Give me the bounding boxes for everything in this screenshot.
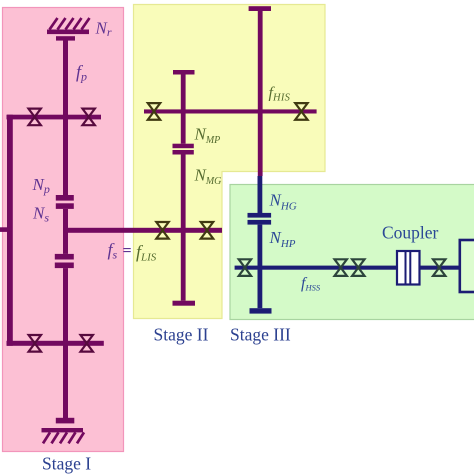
- ring gear wall hatching (top): [50, 18, 90, 30]
- wire: f_HSS shaft (horizontal): [235, 266, 460, 270]
- bearing (bowtie) upper-right: [82, 109, 94, 126]
- wire: sun shaft lower segment: [63, 268, 68, 418]
- gear mesh capacitor N_p/N_s, top plate: [56, 195, 74, 201]
- bearing (bowtie) f_HIS right: [295, 103, 307, 120]
- gear mesh capacitor 2, bottom plate: [55, 263, 74, 269]
- wire: Stage II left shaft lower segment: [181, 155, 186, 301]
- wire: HSS shaft upper navy segment: [258, 176, 263, 213]
- svg-text:=: =: [123, 243, 132, 260]
- generator box: [460, 240, 474, 292]
- wire: carrier upper bar: [7, 115, 102, 120]
- shaft bottom T-bar: [56, 418, 75, 424]
- svg-text:Coupler: Coupler: [382, 222, 439, 242]
- wire: Stage II left shaft upper segment: [181, 74, 186, 144]
- bearing (bowtie) lower-left: [29, 335, 41, 352]
- bearing (bowtie) f_HSS middle 1: [335, 259, 347, 276]
- Stage II background region (yellow, L-shaped): [134, 5, 326, 319]
- gear mesh capacitor 2, top plate: [55, 254, 74, 260]
- wire: Stage II right shaft (purple segment): [258, 11, 263, 176]
- Stage III background region (green): [230, 185, 474, 320]
- bearing (bowtie) f_s wire left: [156, 222, 168, 239]
- svg-text:Stage II: Stage II: [154, 325, 209, 345]
- ring gear wall bar: [47, 30, 89, 35]
- wire: carrier left arm: [7, 115, 13, 346]
- wire: HSS shaft lower segment: [258, 225, 263, 309]
- gear mesh capacitor N_HG/N_HP, top plate: [248, 213, 272, 218]
- wire: central shaft upper segment: [63, 40, 68, 195]
- ring shaft T-bar: [56, 36, 75, 40]
- Stage II right shaft top T-bar: [249, 6, 271, 11]
- coupler body: [397, 251, 420, 285]
- bottom wall bar: [42, 428, 84, 432]
- wire: sun output shaft f_s (horizontal, into Stage II): [63, 228, 222, 233]
- bearing (bowtie) f_HIS left: [148, 103, 160, 120]
- wire: sun shaft mid segment: [63, 209, 68, 254]
- svg-text:Stage I: Stage I: [42, 454, 91, 474]
- gear mesh capacitor N_p/N_s, bottom plate: [56, 203, 74, 209]
- bearing (bowtie) f_HSS middle 2: [352, 259, 364, 276]
- coupler inner plate 1: [405, 251, 407, 285]
- Stage I background region (pink): [3, 8, 124, 452]
- gear mesh capacitor N_MP/N_MG, top plate: [173, 144, 194, 149]
- wire: f_HIS shaft (horizontal): [144, 109, 317, 113]
- HSS shaft bottom T-bar: [250, 308, 272, 313]
- wire: carrier lower bar: [7, 341, 104, 346]
- bearing (bowtie) f_HSS left: [239, 259, 251, 276]
- bottom wall hatching: [43, 432, 84, 443]
- gear mesh capacitor N_HG/N_HP, bottom plate: [248, 220, 272, 225]
- bearing (bowtie) lower-right: [81, 335, 93, 352]
- coupler inner plate 2: [409, 251, 411, 285]
- bearing (bowtie) before generator: [433, 259, 445, 276]
- svg-text:Stage III: Stage III: [230, 325, 291, 345]
- Stage II left shaft T-bar: [173, 70, 195, 75]
- bearing (bowtie) upper-left: [28, 109, 40, 126]
- bearing (bowtie) f_s wire right: [201, 222, 213, 239]
- gear mesh capacitor N_MP/N_MG, bottom plate: [173, 150, 194, 155]
- Stage II left shaft bottom T-bar: [173, 301, 196, 306]
- wire: input shaft stub: [0, 227, 13, 232]
